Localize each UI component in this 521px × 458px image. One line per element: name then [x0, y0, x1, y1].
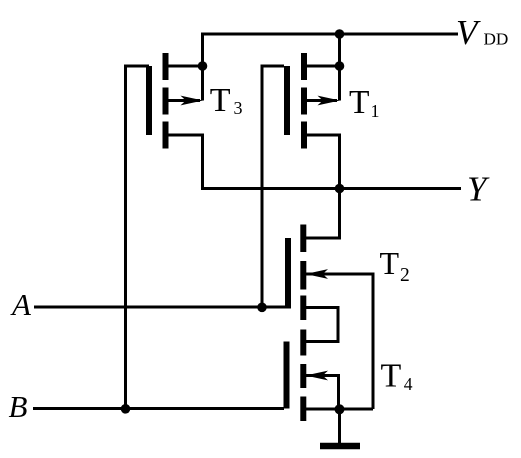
svg-text:2: 2: [400, 265, 410, 286]
svg-text:T: T: [380, 245, 400, 281]
svg-text:T: T: [210, 82, 231, 119]
svg-text:Y: Y: [467, 170, 490, 209]
svg-text:A: A: [10, 287, 32, 322]
svg-text:DD: DD: [484, 29, 509, 48]
svg-text:T: T: [349, 84, 369, 121]
svg-text:T: T: [381, 358, 402, 395]
svg-text:4: 4: [404, 374, 413, 394]
svg-text:V: V: [456, 13, 481, 52]
svg-text:1: 1: [371, 101, 380, 121]
svg-text:3: 3: [234, 98, 243, 118]
svg-text:B: B: [9, 389, 28, 424]
